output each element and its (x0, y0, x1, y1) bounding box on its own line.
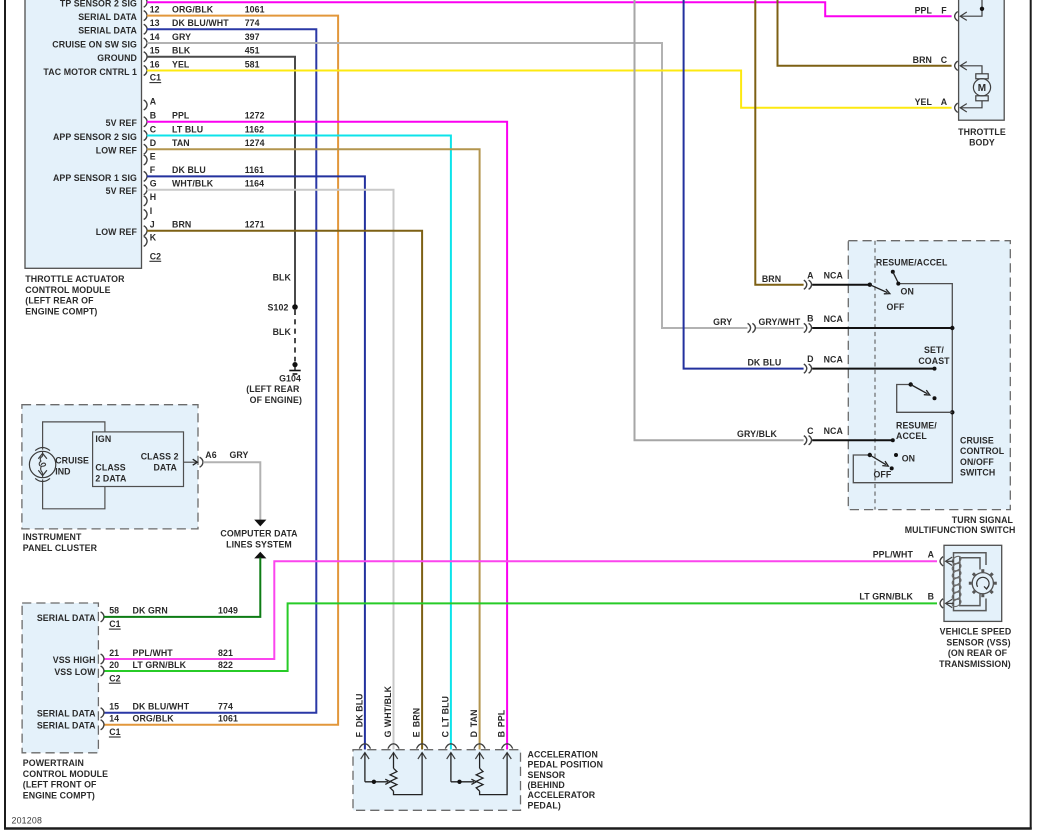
svg-text:C: C (440, 730, 450, 737)
svg-text:SERIAL DATA: SERIAL DATA (78, 12, 137, 22)
svg-text:SET/: SET/ (924, 345, 944, 355)
vehicle speed sensor B1 box (944, 545, 1002, 621)
APP right potentiometer resistor (476, 768, 483, 791)
svg-text:MULTIFUNCTION SWITCH: MULTIFUNCTION SWITCH (905, 525, 1016, 535)
svg-text:PANEL CLUSTER: PANEL CLUSTER (23, 543, 98, 553)
cruise indicator lamp (29, 451, 55, 477)
svg-text:G: G (150, 179, 157, 189)
wire GRY from IPC A6 to data lines (203, 462, 260, 520)
svg-text:A6: A6 (205, 450, 216, 460)
svg-text:C: C (150, 124, 157, 134)
svg-text:DK BLU: DK BLU (354, 693, 364, 727)
svg-text:NCA: NCA (824, 271, 844, 281)
svg-text:PPL: PPL (497, 709, 507, 727)
svg-text:DK BLU/WHT: DK BLU/WHT (133, 702, 190, 712)
svg-text:SERIAL DATA: SERIAL DATA (37, 613, 96, 623)
svg-text:DK BLU: DK BLU (747, 357, 781, 367)
svg-text:ORG/BLK: ORG/BLK (133, 714, 175, 724)
svg-text:C2: C2 (150, 251, 161, 261)
svg-text:WHT/BLK: WHT/BLK (172, 179, 214, 189)
S1 pin C internal lead (812, 439, 893, 441)
PCM pin 21 PPL/WHT (VSS HIGH) (101, 654, 104, 664)
svg-text:G: G (383, 730, 393, 737)
svg-text:(BEHIND: (BEHIND (528, 780, 565, 790)
svg-text:1271: 1271 (245, 220, 265, 230)
svg-text:774: 774 (218, 702, 233, 712)
svg-text:C: C (807, 426, 814, 436)
svg-text:YEL: YEL (915, 97, 933, 107)
svg-text:DATA: DATA (153, 463, 177, 473)
svg-text:C2: C2 (109, 673, 120, 683)
svg-text:1061: 1061 (245, 4, 265, 14)
svg-text:GROUND: GROUND (97, 53, 137, 63)
wire PPL 1272 5V ref U1-B to APP sensor B (147, 122, 507, 750)
svg-text:GRY/BLK: GRY/BLK (737, 429, 778, 439)
svg-text:397: 397 (245, 32, 260, 42)
svg-text:(LEFT REAR: (LEFT REAR (246, 384, 300, 394)
PCM pin 14 ORG/BLK (SERIAL DATA) (101, 720, 104, 730)
U1 C2 pin K (unused) (144, 236, 147, 246)
S1 pin B internal lead (812, 327, 952, 329)
svg-text:TAN: TAN (172, 138, 190, 148)
svg-text:COMPUTER DATA: COMPUTER DATA (220, 529, 298, 539)
wire ORG/BLK 1061 serial data U1-12 to PCM-14 (104, 16, 338, 725)
svg-text:I: I (150, 206, 153, 216)
svg-text:THROTTLE ACTUATOR: THROTTLE ACTUATOR (25, 274, 125, 284)
U1 C2 pin B PPL (5V REF) (144, 117, 147, 127)
svg-text:CRUISE ON SW SIG: CRUISE ON SW SIG (52, 39, 137, 49)
svg-text:PPL/WHT: PPL/WHT (133, 648, 174, 658)
PCM pin 15 DK BLU/WHT (SERIAL DATA) (101, 708, 104, 718)
svg-text:TAC MOTOR CNTRL 1: TAC MOTOR CNTRL 1 (43, 67, 137, 77)
svg-text:DK BLU: DK BLU (172, 165, 206, 175)
svg-text:VSS LOW: VSS LOW (54, 667, 96, 677)
svg-text:CLASS 2: CLASS 2 (141, 452, 179, 462)
svg-text:ENGINE COMPT): ENGINE COMPT) (23, 791, 95, 801)
svg-text:TAN: TAN (469, 709, 479, 727)
S1 bus junction node at set/coast (950, 410, 954, 414)
svg-text:C: C (941, 55, 948, 65)
svg-text:BLK: BLK (172, 46, 191, 56)
svg-text:APP SENSOR 2 SIG: APP SENSOR 2 SIG (53, 132, 137, 142)
APP sensor pin G (WHT/BLK) connector (388, 744, 399, 749)
acceleration pedal position sensor box (353, 750, 521, 811)
svg-text:15: 15 (109, 702, 119, 712)
U1 C2 pin J BRN (LOW REF) (144, 226, 147, 236)
S1 internal bus (853, 284, 952, 483)
svg-text:ACCELERATOR: ACCELERATOR (528, 790, 596, 800)
wire DK BLU/WHT 774 serial data U1-13 to PCM-15 (104, 29, 316, 712)
inline connector on GRY wire (748, 323, 751, 332)
arrow from PCM serial data into data lines (254, 552, 266, 559)
svg-text:ACCELERATION: ACCELERATION (528, 749, 598, 759)
IPC class 2 data output pin A6 (184, 461, 198, 463)
wire DK BLU 1161 APP sensor 1 sig U1-F to APP sensor F (147, 176, 365, 749)
IPC wiring to cruise indicator (43, 422, 105, 450)
svg-text:BRN: BRN (412, 708, 422, 727)
PCM pin 20 LT GRN/BLK (VSS LOW) (101, 666, 104, 676)
S1 pin A connector (NCA) (804, 280, 807, 289)
VSS coil winding (951, 555, 962, 565)
ground G104 (292, 362, 297, 367)
cruise control on/off switch S1 box (848, 241, 1010, 510)
S1 pin A internal lead (812, 284, 870, 286)
svg-text:NCA: NCA (824, 354, 844, 364)
svg-text:A: A (941, 97, 948, 107)
U1 C2 pin G WHT/BLK (5V REF) (144, 185, 147, 195)
wire GRY/WHT segment into cruise switch pin B (756, 327, 804, 329)
svg-text:13: 13 (150, 18, 160, 28)
svg-text:1061: 1061 (218, 714, 238, 724)
wire GRY 397 cruise on sig U1-14 to cruise switch B (147, 43, 748, 328)
svg-text:GRY: GRY (172, 32, 191, 42)
svg-text:DK GRN: DK GRN (133, 606, 168, 616)
S1 resume/accel lower (on/off) switch (891, 438, 895, 442)
svg-text:1272: 1272 (245, 111, 265, 121)
svg-text:K: K (150, 233, 157, 243)
wire YEL 581 TAC motor control U1-16 to throttle body pin A (147, 71, 952, 108)
S1 pin D connector (NCA) (804, 364, 807, 373)
wire PPL (TP sensor 2 sig) to throttle body pin F (147, 2, 952, 16)
U1 C1 pin 13 DK BLU/WHT (SERIAL DATA) (144, 24, 147, 34)
svg-text:LT GRN/BLK: LT GRN/BLK (133, 660, 187, 670)
svg-text:B: B (928, 592, 934, 602)
splice S102 (292, 304, 298, 310)
svg-text:C1: C1 (109, 619, 120, 629)
svg-text:20: 20 (109, 660, 119, 670)
svg-text:SERIAL DATA: SERIAL DATA (78, 26, 137, 36)
svg-text:G104: G104 (279, 374, 301, 384)
svg-text:CONTROL MODULE: CONTROL MODULE (25, 285, 110, 295)
powertrain control module box (22, 603, 98, 753)
U1 C2 pin F DK BLU (APP SENSOR 1 SIG) (144, 171, 147, 181)
svg-text:IND: IND (55, 466, 70, 476)
svg-text:LT BLU: LT BLU (440, 696, 450, 727)
APP sensor internal leads (364, 753, 366, 782)
APP right potentiometer wiper (451, 781, 474, 783)
svg-text:TRANSMISSION): TRANSMISSION) (939, 659, 1011, 669)
svg-text:D: D (807, 354, 813, 364)
svg-text:RESUME/ACCEL: RESUME/ACCEL (876, 257, 948, 267)
svg-text:LT GRN/BLK: LT GRN/BLK (859, 592, 913, 602)
svg-text:14: 14 (150, 32, 160, 42)
svg-text:16: 16 (150, 59, 160, 69)
svg-text:822: 822 (218, 660, 233, 670)
VSS tone wheel (972, 573, 993, 594)
svg-text:SERIAL DATA: SERIAL DATA (37, 709, 96, 719)
svg-text:CONTROL MODULE: CONTROL MODULE (23, 769, 108, 779)
svg-text:A: A (150, 96, 157, 106)
svg-text:THROTTLE: THROTTLE (958, 127, 1006, 137)
arrow into computer data lines system (254, 520, 266, 527)
svg-text:ON/OFF: ON/OFF (960, 457, 994, 467)
throttle body pin C (BRN) (955, 61, 958, 70)
VSS rotation arrow (977, 577, 989, 588)
svg-text:B: B (150, 111, 156, 121)
APP sensor pin F (DK BLU) connector (359, 744, 370, 749)
svg-text:VSS HIGH: VSS HIGH (53, 655, 96, 665)
svg-text:774: 774 (245, 18, 260, 28)
U1 C2 pin H (unused) (144, 196, 147, 206)
svg-text:CRUISE: CRUISE (960, 436, 994, 446)
svg-text:CLASS: CLASS (95, 463, 125, 473)
svg-text:PPL/WHT: PPL/WHT (873, 549, 914, 559)
VSS pin B (LT GRN/BLK) (940, 599, 943, 608)
svg-text:OF ENGINE): OF ENGINE) (250, 395, 302, 405)
svg-text:GRY: GRY (713, 317, 732, 327)
svg-text:ORG/BLK: ORG/BLK (172, 4, 214, 14)
wire BRN from top to throttle body pin C (778, 0, 952, 66)
svg-text:C1: C1 (109, 727, 120, 737)
svg-text:LINES SYSTEM: LINES SYSTEM (226, 539, 292, 549)
svg-text:(LEFT FRONT OF: (LEFT FRONT OF (23, 780, 97, 790)
U1 C2 pin C LT BLU (APP SENSOR 2 SIG) (144, 131, 147, 141)
wire BRN 1271 low ref U1-J to APP sensor E (147, 231, 422, 750)
throttle body pin A (YEL) (955, 103, 958, 112)
svg-text:2 DATA: 2 DATA (95, 474, 127, 484)
svg-text:F: F (150, 165, 156, 175)
svg-text:F: F (354, 731, 364, 737)
IPC internal logic box (93, 432, 184, 487)
svg-text:M: M (978, 83, 986, 94)
wire BLK 451 ground U1-15 to splice S102 (147, 57, 295, 307)
U1 C2 pin D TAN (LOW REF) (144, 144, 147, 154)
svg-text:A: A (928, 549, 935, 559)
wire GRY/BLK from top to cruise switch pin C (635, 0, 804, 440)
svg-text:SENSOR: SENSOR (528, 770, 566, 780)
svg-text:5V REF: 5V REF (106, 118, 138, 128)
svg-text:ACCEL: ACCEL (896, 431, 927, 441)
svg-text:BRN: BRN (172, 220, 191, 230)
svg-text:A: A (807, 270, 814, 280)
svg-text:1161: 1161 (245, 165, 264, 175)
svg-text:D: D (150, 138, 156, 148)
svg-text:COAST: COAST (918, 356, 950, 366)
svg-text:POWERTRAIN: POWERTRAIN (23, 758, 84, 768)
U1 C1 pin 14 GRY (CRUISE ON SW SIG) (144, 38, 147, 48)
svg-text:OFF: OFF (873, 470, 891, 480)
svg-text:BRN: BRN (762, 274, 781, 284)
APP sensor pin B (PPL) connector (502, 744, 513, 749)
S1 pin D internal lead (812, 368, 934, 370)
svg-text:(ON REAR OF: (ON REAR OF (948, 648, 1008, 658)
svg-text:CRUISE: CRUISE (55, 456, 89, 466)
wire BLK S102 to ground G104 (dashed) (294, 310, 296, 362)
S1 bus junction node at pin B (950, 326, 954, 330)
svg-text:821: 821 (218, 648, 233, 658)
svg-text:15: 15 (150, 46, 160, 56)
svg-text:RESUME/: RESUME/ (896, 420, 937, 430)
svg-text:S102: S102 (268, 303, 289, 313)
svg-text:1274: 1274 (245, 138, 265, 148)
svg-text:NCA: NCA (824, 314, 844, 324)
svg-text:D: D (469, 731, 479, 737)
svg-text:ENGINE COMPT): ENGINE COMPT) (25, 307, 97, 317)
svg-text:ON: ON (901, 287, 914, 297)
svg-text:PEDAL POSITION: PEDAL POSITION (528, 760, 604, 770)
svg-text:INSTRUMENT: INSTRUMENT (23, 532, 82, 542)
svg-text:451: 451 (245, 46, 260, 56)
APP sensor pin D (TAN) connector (474, 744, 485, 749)
U1 C1 pin 15 BLK (GROUND) (144, 52, 147, 62)
wire LT BLU 1162 APP sensor 2 sig U1-C to APP sensor C (147, 136, 451, 750)
wire WHT/BLK 1164 5V ref U1-G to APP sensor G (147, 190, 394, 750)
svg-text:DK BLU/WHT: DK BLU/WHT (172, 18, 229, 28)
svg-text:21: 21 (109, 648, 119, 658)
svg-text:LOW REF: LOW REF (96, 146, 138, 156)
svg-text:BLK: BLK (273, 327, 292, 337)
S1 pin C connector (NCA) (804, 436, 807, 445)
svg-text:B: B (807, 314, 813, 324)
svg-text:H: H (150, 192, 156, 202)
svg-text:BLK: BLK (273, 272, 292, 282)
svg-text:1164: 1164 (245, 179, 264, 189)
svg-text:201208: 201208 (12, 815, 43, 825)
svg-text:GRY/WHT: GRY/WHT (758, 317, 800, 327)
svg-text:PPL: PPL (172, 111, 190, 121)
APP sensor pin C (LT BLU) connector (445, 744, 456, 749)
svg-text:TURN SIGNAL: TURN SIGNAL (952, 515, 1014, 525)
svg-text:BRN: BRN (913, 55, 932, 65)
svg-text:E: E (150, 151, 156, 161)
U1 C1 pin 12 ORG/BLK (SERIAL DATA) (144, 11, 147, 21)
svg-text:J: J (150, 220, 155, 230)
S1 pin B connector (NCA) (804, 323, 807, 332)
wire DK GRN 1049 PCM-58 to data lines arrow (104, 558, 260, 617)
svg-text:YEL: YEL (172, 59, 190, 69)
svg-text:F: F (941, 5, 947, 15)
U1 C2 pin E (unused) (144, 155, 147, 165)
wire TAN 1274 low ref U1-D to APP sensor D (147, 149, 480, 749)
wire PPL/WHT 821 PCM-21 to VSS A (104, 561, 937, 659)
wire DK BLU from top to cruise switch pin D (684, 0, 804, 369)
svg-text:NCA: NCA (824, 426, 844, 436)
VSS pin A (PPL/WHT) (940, 557, 943, 566)
svg-text:PPL: PPL (915, 5, 933, 15)
svg-text:58: 58 (109, 606, 119, 616)
svg-text:SWITCH: SWITCH (960, 468, 995, 478)
svg-text:SERIAL DATA: SERIAL DATA (37, 721, 96, 731)
svg-text:TP SENSOR 2 SIG: TP SENSOR 2 SIG (60, 0, 137, 9)
svg-text:(LEFT REAR OF: (LEFT REAR OF (25, 296, 94, 306)
U1 C1 pin 11 PPL (TP SENSOR 2 SIG) (144, 0, 147, 7)
throttle motor M (960, 66, 982, 74)
svg-text:BODY: BODY (969, 138, 995, 148)
svg-text:5V REF: 5V REF (106, 186, 138, 196)
PCM pin 58 DK GRN (SERIAL DATA) (101, 612, 104, 622)
svg-text:ON: ON (902, 453, 915, 463)
svg-text:PEDAL): PEDAL) (528, 800, 561, 810)
S1 resume/accel upper switch (868, 283, 872, 287)
svg-text:GRY: GRY (229, 450, 248, 460)
svg-text:IGN: IGN (95, 434, 111, 444)
U1 C1 pin 16 YEL (TAC MOTOR CNTRL 1) (144, 66, 147, 76)
svg-text:APP SENSOR 1 SIG: APP SENSOR 1 SIG (53, 173, 137, 183)
svg-text:OFF: OFF (887, 302, 905, 312)
svg-text:14: 14 (109, 714, 119, 724)
APP sensor pin E (BRN) connector (417, 744, 428, 749)
APP left potentiometer wiper (365, 781, 388, 783)
svg-text:1049: 1049 (218, 606, 238, 616)
VSS lead lines (946, 560, 954, 562)
svg-text:B: B (497, 731, 507, 737)
VSS pickup coil core (954, 553, 987, 611)
throttle body pin F internal lead and junction (960, 0, 982, 16)
svg-text:C1: C1 (150, 73, 161, 83)
svg-text:E: E (412, 731, 422, 737)
svg-text:581: 581 (245, 59, 260, 69)
svg-text:WHT/BLK: WHT/BLK (383, 685, 393, 727)
svg-text:SENSOR (VSS): SENSOR (VSS) (946, 637, 1010, 647)
svg-text:VEHICLE SPEED: VEHICLE SPEED (940, 627, 1012, 637)
throttle body pin F (PPL) (955, 12, 958, 21)
wire BRN from top to cruise switch pin A (755, 0, 803, 285)
svg-text:12: 12 (150, 4, 160, 14)
wire LT GRN/BLK 822 PCM-20 to VSS B (104, 603, 937, 671)
U1 C2 pin I (unused) (144, 210, 147, 220)
svg-text:LT BLU: LT BLU (172, 124, 203, 134)
svg-text:LOW REF: LOW REF (96, 227, 138, 237)
svg-text:CONTROL: CONTROL (960, 446, 1005, 456)
throttle body M1 box (959, 0, 1005, 120)
APP left potentiometer resistor (390, 768, 397, 791)
svg-text:1162: 1162 (245, 124, 264, 134)
U1 C2 pin A (unused) (144, 100, 147, 110)
instrument panel cluster box (22, 405, 198, 529)
throttle actuator control module U1 box (25, 0, 142, 268)
S1 mechanical link (inner dashed line) (874, 241, 876, 510)
